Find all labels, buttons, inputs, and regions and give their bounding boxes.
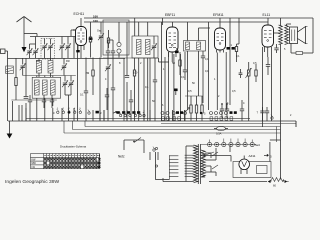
svg-text:0,1: 0,1 (145, 85, 149, 89)
svg-text:0,5: 0,5 (232, 90, 236, 93)
trimmer capacitor C1 (27, 48, 33, 55)
wire (248, 62, 250, 121)
wire top rail A (84, 17, 313, 19)
wire bus upper (26, 117, 250, 119)
switch S6 contact (271, 115, 273, 120)
switch S1 contacts (57, 109, 82, 114)
switch S5 contacts (210, 112, 228, 115)
supply label (93, 14, 98, 18)
coil L3 (48, 61, 53, 74)
mains terminals (155, 147, 157, 167)
resistor R10 (201, 96, 203, 121)
tube V3 top lead (219, 18, 221, 28)
resistor R2 (133, 70, 135, 76)
trimmer capacitor C7 (65, 43, 71, 50)
power transformer T4 core (198, 144, 200, 184)
ballast box (233, 162, 271, 178)
wire (147, 22, 149, 36)
switch arrow (186, 108, 191, 112)
wire (134, 58, 136, 110)
wire (123, 58, 125, 121)
trimmer capacitor C17 (105, 64, 111, 71)
value label (257, 111, 259, 115)
switch S4 contact2 (184, 112, 187, 115)
wire (184, 52, 186, 80)
caption (5, 179, 59, 185)
wire (208, 22, 210, 110)
IF coil L8 (137, 40, 142, 55)
HT label (264, 154, 272, 158)
wire (139, 58, 148, 110)
resistor R8 (190, 96, 192, 121)
svg-text:AZ11: AZ11 (249, 154, 256, 158)
wire (202, 51, 204, 103)
oscillator coil L5 (43, 80, 48, 95)
tube V1 ECH11 label (74, 12, 85, 16)
wire (188, 51, 199, 110)
switch S8 contact (153, 147, 155, 152)
switch S3 arrow (113, 111, 117, 113)
wire (92, 58, 94, 96)
wire (270, 139, 281, 141)
svg-text:0,1: 0,1 (205, 69, 209, 73)
switch S1 label (53, 111, 55, 115)
tube V2 diode plates (169, 44, 176, 47)
wire (90, 22, 92, 58)
wire (29, 44, 31, 58)
value label (86, 71, 90, 75)
output transformer T3 primary (279, 25, 283, 45)
svg-text:Netz: Netz (255, 144, 261, 147)
capacitor C30 (240, 100, 244, 121)
wire (230, 117, 272, 152)
tuning capacitor C4 (42, 43, 48, 50)
wire (160, 22, 162, 110)
wire (112, 58, 114, 111)
table title (60, 145, 87, 149)
value label (80, 93, 84, 97)
tube V5 AZ11 label (249, 154, 256, 158)
wire (269, 142, 271, 162)
wire (124, 139, 144, 141)
wire (203, 156, 244, 162)
wire cable A (85, 121, 281, 127)
label (273, 184, 276, 188)
wire HT leads (205, 153, 216, 172)
wire (255, 64, 257, 82)
wire lower-left bus (11, 99, 56, 101)
wire (77, 37, 79, 109)
wire chassis bus (8, 120, 296, 122)
wire (99, 58, 101, 121)
wire T2 bottom link (185, 95, 203, 97)
svg-text:0,5: 0,5 (188, 89, 192, 93)
capacitor C20 (183, 70, 187, 72)
capacitor C14 (129, 100, 133, 102)
fuse label (216, 132, 222, 136)
value label (133, 71, 138, 75)
wire (229, 18, 231, 105)
wire (44, 39, 46, 59)
wire (291, 18, 313, 53)
IF coil L10 (186, 42, 190, 50)
svg-text:100: 100 (133, 71, 138, 75)
value label (145, 85, 149, 89)
wire (280, 18, 282, 26)
value label (152, 99, 155, 103)
arrow marks (268, 180, 288, 183)
wire (149, 58, 151, 121)
tube V2 EBF11 label (165, 13, 175, 17)
resistor R6 (255, 70, 257, 76)
wire (237, 18, 240, 44)
power transformer T4 primary (194, 145, 198, 183)
tube V4 grids (264, 31, 272, 42)
potentiometer P1 (246, 68, 252, 78)
capacitor C26 (42, 95, 46, 108)
svg-text:0,1: 0,1 (80, 93, 84, 97)
svg-text:Drucktasten-Schema: Drucktasten-Schema (60, 145, 87, 149)
capacitor C21 (201, 56, 205, 58)
wire bottom rail (209, 181, 267, 183)
label Netz (118, 155, 125, 159)
wire (108, 40, 113, 58)
switch S4 contacts (161, 112, 175, 115)
wire (215, 148, 217, 176)
IF coil L11 (197, 42, 201, 50)
wire (50, 39, 52, 59)
switch S3 caps dark (117, 111, 141, 114)
capacitor C9 (106, 51, 110, 53)
tube V1 cathode (81, 28, 93, 40)
fuse F1 (214, 126, 228, 130)
tube V3 grids (217, 34, 224, 45)
resistor R7 (296, 52, 303, 55)
wire (30, 37, 36, 59)
capacitor C24 (266, 44, 279, 66)
ground symbol (7, 121, 13, 139)
svg-text:Ingelen Geographic 39W: Ingelen Geographic 39W (5, 179, 59, 185)
switch S2 contact (88, 110, 102, 115)
voltage selector left comb (169, 155, 178, 179)
wire drops mid (169, 110, 185, 121)
tube V3 EFM11 label (213, 13, 224, 17)
wire mid-left bus (8, 57, 81, 59)
dial lamps (208, 142, 255, 146)
resistor R3 (92, 70, 94, 76)
electrolytic capacitor C11 (117, 42, 121, 53)
switch S5 wafers (210, 117, 233, 120)
switch S7 mains (133, 138, 141, 143)
trimmer capacitor C35 (20, 58, 26, 75)
wire (159, 18, 169, 62)
wire (50, 58, 52, 77)
switch S4 caps dark (176, 111, 183, 114)
wire left rail (7, 51, 9, 121)
trimmer capacitor C8 (98, 33, 104, 40)
svg-text:100: 100 (93, 14, 98, 18)
svg-text:EBF11: EBF11 (165, 13, 175, 17)
capacitor C32 (265, 107, 269, 121)
lamp stubs (210, 139, 253, 143)
capacitor C27 (50, 95, 54, 108)
svg-text:0,5: 0,5 (253, 62, 257, 65)
capacitor C3 (24, 97, 29, 99)
resistor R12 (107, 30, 109, 48)
wire (150, 152, 158, 160)
wire drops (26, 108, 78, 121)
wire cable C (64, 121, 281, 133)
wire mid bus segment (80, 57, 125, 59)
tube V1 heater lead (71, 29, 76, 36)
wire drops (86, 110, 165, 121)
resistor R4 (179, 60, 181, 66)
svg-text:ECH11: ECH11 (74, 12, 85, 16)
wire (68, 37, 74, 59)
value label (231, 43, 233, 47)
resistor R9 (195, 96, 197, 121)
IF transformer T2 box (184, 41, 206, 52)
supply label (93, 19, 98, 23)
wire (271, 180, 284, 182)
wire (134, 18, 136, 36)
wire (295, 121, 297, 127)
shield box (103, 20, 129, 55)
wire (290, 43, 292, 46)
wire (280, 44, 282, 180)
junction cap (200, 112, 206, 116)
tuning capacitor C5 (48, 43, 54, 50)
svg-text:0,1: 0,1 (236, 55, 240, 58)
tube V4 pins (265, 47, 272, 57)
wire cable D (161, 123, 296, 125)
wire (103, 110, 105, 121)
tube V2 envelope (167, 27, 179, 52)
trimmer capacitor C38 (68, 76, 74, 96)
switch S3 contacts (119, 112, 145, 117)
tube V4 EL11 label (263, 13, 271, 17)
wire (163, 146, 194, 182)
trimmer capacitor C12 (151, 43, 157, 50)
coil L1 (6, 66, 14, 74)
tube V4 top lead (267, 18, 269, 25)
wire (154, 58, 156, 110)
wire (143, 58, 145, 121)
tube V5 heater (242, 161, 247, 167)
wire drops left (13, 101, 22, 121)
wire (138, 22, 140, 36)
capacitor C31 (260, 107, 264, 121)
wire (85, 58, 87, 111)
output transformer T3 secondary (285, 25, 289, 45)
wire (179, 52, 181, 75)
wire (106, 88, 108, 110)
svg-text:Netz: Netz (118, 155, 125, 159)
wire (287, 24, 292, 26)
oscillator coil box (32, 77, 60, 98)
capacitor C10 (111, 51, 115, 53)
wire right stub (295, 121, 297, 127)
svg-text:MW: MW (32, 162, 37, 165)
switch S5 caps dark (230, 111, 237, 114)
capacitor C22 dark (227, 47, 235, 50)
wire (164, 57, 166, 110)
tube V1 ECH11 envelope (76, 27, 87, 46)
wire cable B (73, 121, 281, 130)
coil L2 (37, 61, 42, 74)
resistor R5 (235, 44, 237, 62)
wire (130, 90, 132, 110)
oscillator coil L6 (51, 80, 56, 95)
wire lamp chain (201, 144, 257, 146)
wire (65, 95, 71, 108)
svg-text:100: 100 (93, 19, 98, 23)
wire (153, 36, 155, 58)
svg-text:0,3A: 0,3A (216, 132, 222, 136)
switch S1 digits (57, 108, 82, 110)
wire (216, 53, 218, 111)
wire (100, 22, 102, 58)
value labels (36, 30, 292, 118)
capacitor C16 (84, 91, 88, 93)
switch S9 (212, 152, 218, 169)
wire mid-left lower bus (23, 75, 76, 77)
junction (221, 103, 228, 105)
capacitor C25 (28, 95, 32, 121)
capacitor C18 (111, 88, 115, 90)
wire (210, 153, 212, 172)
wire (124, 140, 144, 153)
wire (118, 22, 120, 58)
wire (225, 52, 227, 110)
svg-text:EFM11: EFM11 (213, 13, 224, 17)
tube V5 pins (241, 169, 247, 174)
wire (61, 37, 63, 59)
tube V1 pins (76, 46, 84, 59)
wire antenna to tuner (24, 34, 37, 37)
wire (38, 58, 40, 77)
loudspeaker LS1 (290, 27, 308, 44)
capacitor C28 (220, 104, 224, 119)
wire (107, 58, 109, 111)
wire (37, 76, 53, 78)
trimmer capacitor C2 (33, 48, 39, 55)
switch S4 wafers (162, 117, 181, 120)
IF coil L9 (146, 40, 151, 55)
svg-text:EL11: EL11 (263, 13, 271, 17)
capacitor C15 (153, 80, 157, 82)
wire (274, 32, 280, 34)
wire (163, 146, 186, 182)
band switch table (31, 154, 101, 169)
wire (169, 52, 181, 110)
capacitor C19 (105, 95, 109, 97)
tube V1 grid dashes (78, 33, 85, 42)
wire (107, 40, 109, 58)
capacitor C34 dark (174, 89, 178, 96)
earth terminal (1, 49, 8, 54)
switch S10 lever (204, 152, 214, 156)
oscillator coil L4 (35, 80, 40, 95)
voltage selector right comb (185, 155, 194, 176)
tube V1 top lead (80, 18, 82, 27)
trimmer capacitor C37 (62, 76, 68, 96)
wire (263, 47, 272, 127)
tube V4 envelope (262, 25, 274, 47)
resistor R11 zigzag (272, 178, 284, 182)
antenna plug arrow (22, 34, 27, 53)
wire (188, 22, 211, 41)
svg-text:0,1: 0,1 (205, 58, 209, 61)
wire top rail B (84, 21, 268, 23)
tube V3 pins (217, 50, 224, 53)
power transformer T4 secondary (201, 150, 205, 177)
lamp label (255, 144, 261, 147)
wire (37, 98, 53, 108)
tube V3 envelope (215, 28, 226, 50)
tuning gang frame (41, 39, 55, 60)
capacitor C13 (125, 76, 129, 78)
resistor R1 (89, 37, 91, 42)
svg-text:0,1: 0,1 (181, 76, 185, 79)
wire (156, 152, 170, 180)
tube V2 top lead (172, 22, 174, 27)
wire (25, 58, 27, 121)
junction (68, 111, 70, 113)
capacitor C33 dark (175, 48, 179, 53)
tube V2 grids (169, 33, 177, 44)
wire (126, 22, 128, 121)
IF transformer T1 box (132, 36, 158, 58)
antenna (17, 17, 32, 34)
wire top-left bus (30, 36, 80, 38)
trimmer capacitor C36 (61, 58, 67, 75)
capacitor C29 (225, 104, 229, 119)
tube V5 AZ11 envelope (239, 159, 250, 170)
wire (287, 181, 288, 183)
wire (276, 127, 278, 143)
wire (267, 66, 269, 75)
capacitor C23 (239, 69, 243, 78)
tube V2 pins (169, 52, 177, 62)
tuning capacitor C6 (59, 43, 65, 50)
wire box bottom link (103, 57, 158, 59)
resistor R13 (15, 58, 17, 100)
